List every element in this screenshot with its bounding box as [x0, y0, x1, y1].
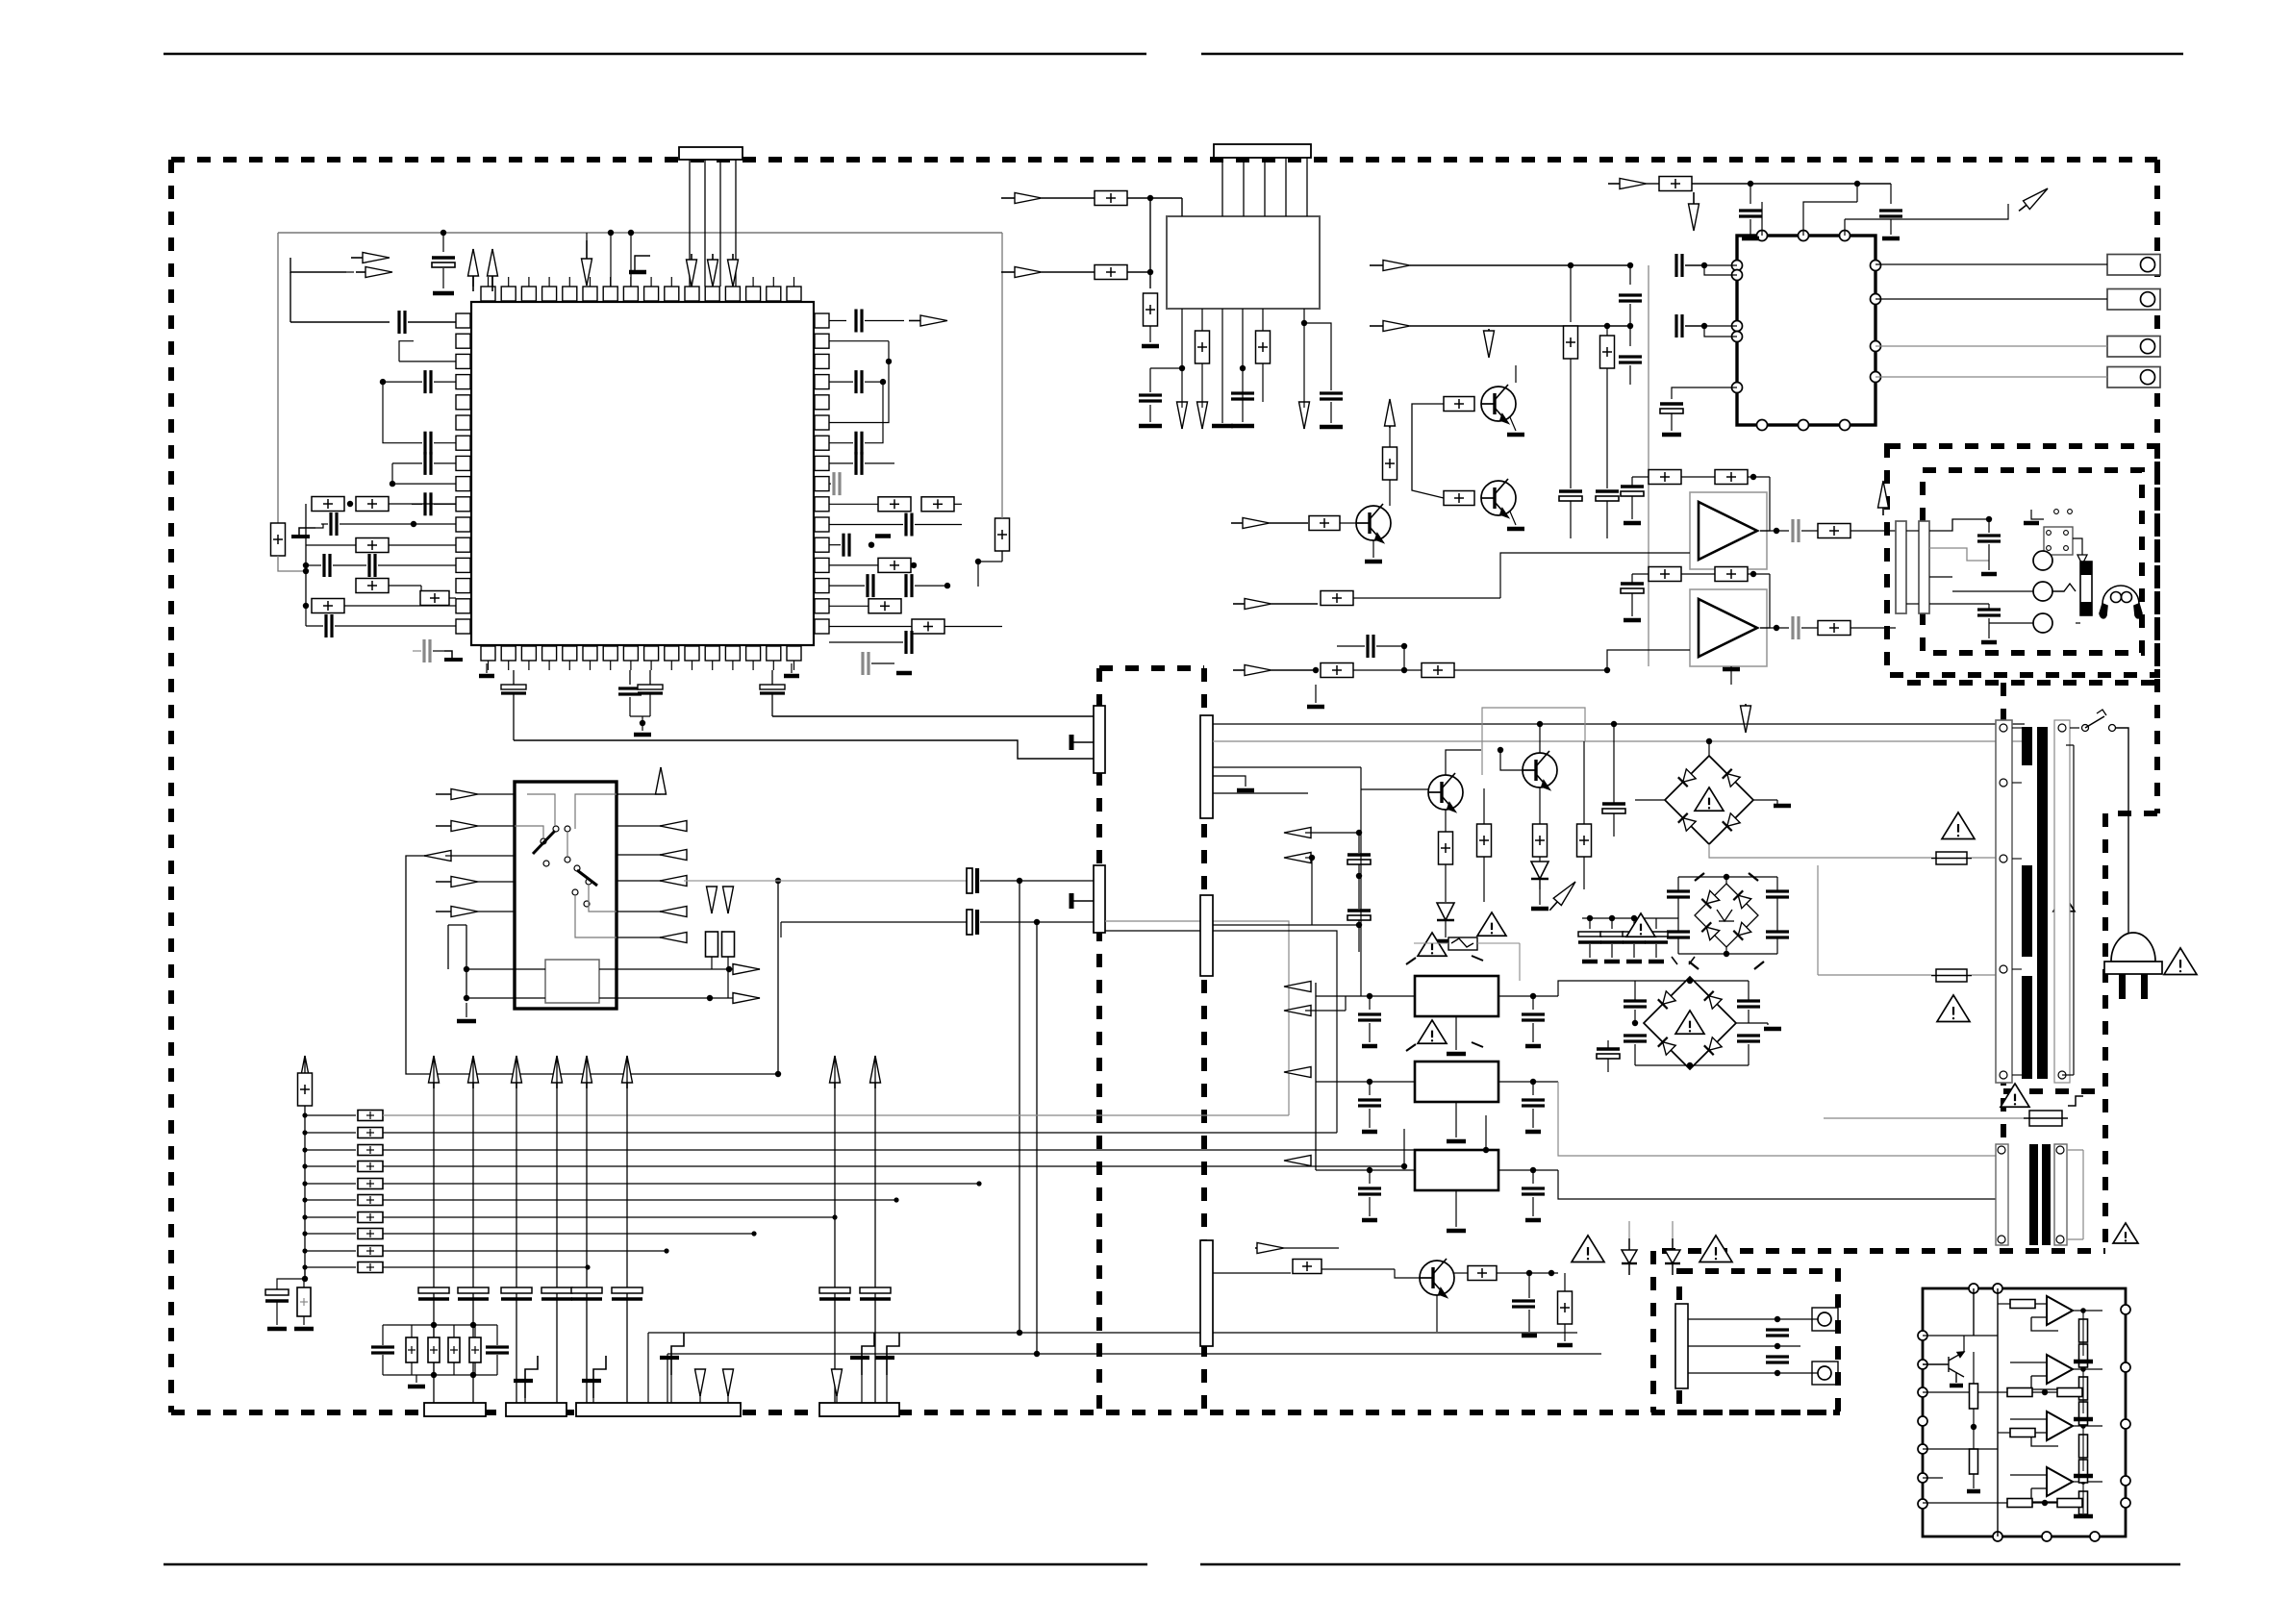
ladder row5 wire: [383, 1183, 979, 1185]
diode D3: [1622, 1238, 1637, 1275]
J2 to U2 wire 5: [1306, 158, 1308, 216]
U10 bottom pin x2077: [1993, 1532, 2002, 1541]
wire to down arrow: [586, 233, 588, 240]
wire W107: [1681, 476, 1715, 478]
wire to left pin 3: [399, 361, 456, 362]
aux connector dashed box: [1679, 1271, 1838, 1412]
IC U1 left pin 16: [456, 619, 470, 634]
U10 column resistor y1458: [2079, 1402, 2088, 1425]
capacitor C30: [1139, 395, 1162, 401]
capacitor C32: [1320, 393, 1343, 399]
U3 bottom pin at 1832: [1757, 420, 1768, 431]
bridge rectifier B1: [1665, 756, 1753, 844]
U10 res c: [1970, 1384, 1978, 1409]
wire W76: [1685, 264, 1704, 266]
wire W11: [321, 523, 328, 525]
wire W210: [1776, 937, 1778, 954]
junction J30: [1774, 528, 1779, 534]
main dashed border right: [2154, 160, 2160, 813]
stage 1 in+ wire: [2010, 1303, 2047, 1305]
U1 bottom feed 2: [629, 670, 631, 685]
gnd under amps: [1723, 667, 1740, 672]
IC U1 left pin 6: [456, 415, 470, 430]
wire W243: [1369, 1023, 1371, 1042]
J3 contact: [2141, 258, 2155, 272]
down arrow top: [582, 240, 592, 286]
junction row916: [1017, 878, 1022, 884]
wire W233: [1817, 865, 1819, 975]
wire W68: [1750, 219, 1751, 235]
T1 core left segments: [2022, 727, 2032, 1079]
gnd B1: [1774, 804, 1791, 809]
wire W177: [670, 1375, 672, 1403]
wire W23: [433, 650, 444, 652]
reg 1 in wire: [1316, 1081, 1415, 1083]
rail C 1714: [1648, 265, 1649, 666]
junction rail B: [1149, 198, 1151, 288]
ladder junction 7: [302, 1214, 307, 1219]
wire W100: [1390, 420, 1444, 422]
dash mark c: [1689, 962, 1699, 969]
wire W122: [1850, 627, 1896, 629]
wire W209: [1776, 897, 1778, 932]
U10 bottom pin x2128: [2042, 1532, 2052, 1541]
stage 4 out wire: [2073, 1481, 2102, 1483]
wire W6: [392, 462, 422, 464]
wire W47: [629, 697, 631, 716]
capacitor C53: [1347, 911, 1371, 920]
wire W54: [1127, 197, 1182, 199]
switch contact: [584, 901, 590, 907]
cap link wire: [383, 382, 422, 443]
U1 top pin stub 13: [732, 277, 734, 287]
drop E 1364: [1311, 858, 1313, 925]
main dashed border bottom: [171, 1410, 1840, 1415]
op-amp stage 2: [2047, 1355, 2073, 1384]
op-amp stage 3: [2047, 1412, 2073, 1440]
warning U7: [1418, 933, 1447, 956]
IC U1 top pin 5: [563, 287, 577, 301]
T2 cores: [2029, 1144, 2051, 1245]
top rule right: [1201, 53, 2183, 55]
B1 left wire: [1635, 799, 1665, 801]
wire W157: [303, 1316, 305, 1325]
gnd reg in 2: [1362, 1218, 1377, 1223]
cluster capacitor 1: [486, 1347, 509, 1353]
capacitor Creg_out2: [1522, 1188, 1545, 1194]
gnd flag J9a: [582, 1356, 606, 1398]
wire W172: [474, 1325, 476, 1337]
T1 terminal: [2000, 724, 2007, 732]
up arrow A1: [468, 249, 479, 291]
capacitor C60: [1624, 1001, 1647, 1007]
junction J82: [1775, 1343, 1780, 1349]
U2 bottom pin wire 1: [1181, 309, 1183, 402]
gnd below U1: [634, 733, 651, 737]
junction J14: [944, 583, 950, 588]
wire W114: [1631, 593, 1633, 616]
wire W295: [1776, 1346, 1778, 1357]
resistor R8: [878, 497, 911, 512]
CN7 wire: [1213, 1272, 1291, 1274]
down arrow onto Q1: [1484, 329, 1495, 358]
jack detect arrow: [2077, 555, 2087, 564]
J2 to U2 wire 3: [1264, 158, 1266, 216]
U3 right pin at 360: [1871, 341, 1881, 352]
long wire D row959: [781, 921, 967, 923]
junction J21: [1854, 181, 1860, 187]
wire W158: [382, 1325, 384, 1345]
U1 bottom feed 1: [513, 670, 515, 685]
U10 internal rail: [1997, 1288, 1999, 1537]
wire W70: [1750, 201, 1762, 203]
transistor Q3: [1356, 504, 1391, 542]
gnd flag J9b: [660, 1333, 684, 1375]
op-amp stage 4: [2047, 1467, 2073, 1496]
U10 column gnd y1577: [2074, 1514, 2093, 1519]
vertical wire to up arrow 1: [472, 249, 474, 287]
resistor Rl8 plus: [366, 1230, 374, 1237]
wire C2 to pin: [408, 321, 456, 323]
wire W22: [335, 625, 456, 627]
mains feed wire 2: [1213, 740, 2025, 742]
wire W199: [1539, 879, 1541, 905]
capacitor C63: [1737, 1036, 1760, 1041]
bus capacitor Cr1: [819, 1287, 850, 1299]
regulator U8: [1415, 1062, 1498, 1102]
switch contact: [574, 865, 580, 871]
wire W49: [642, 716, 643, 731]
IC U1 main processor body: [471, 302, 814, 645]
audio output dashed box: [1887, 446, 2157, 675]
resistor R48: [1558, 1291, 1573, 1324]
T1 top stub: [2066, 744, 2074, 746]
junction J32: [1604, 667, 1610, 673]
wire W26: [865, 320, 904, 322]
junction J79: [1548, 1270, 1554, 1276]
wire W215: [1633, 944, 1635, 958]
junction J2: [608, 230, 614, 236]
IC U1 left pin 3: [456, 354, 470, 368]
down arrow under amps: [1741, 704, 1751, 733]
wire W123: [1730, 666, 1732, 685]
resistor Rl7: [358, 1212, 383, 1223]
junction J25: [1604, 323, 1610, 329]
wire W145: [478, 793, 515, 795]
U10 top pin x2077: [1993, 1284, 2002, 1293]
capacitor C27: [618, 688, 642, 694]
wire W135: [1315, 670, 1317, 685]
gnd step c11: [444, 651, 463, 660]
resistor R7: [312, 599, 344, 613]
U3 top pin at 1875: [1799, 231, 1809, 241]
gnd Q2 emitter: [1507, 527, 1524, 532]
into U4 inv: [1500, 553, 1690, 598]
resistor R39: [722, 932, 735, 957]
wire U3 to J3: [1876, 263, 2107, 265]
cluster resistor 3 plus: [471, 1346, 479, 1354]
ladder rail: [304, 1106, 306, 1279]
J4 contact: [2141, 292, 2155, 307]
capacitor C16: [856, 432, 862, 455]
channel dashed right: [1201, 668, 1207, 1412]
Q4 base wire in: [1361, 788, 1428, 790]
wire W224: [1689, 1065, 1691, 1069]
wire W149: [478, 911, 515, 912]
bus up arrow r1: [830, 1056, 841, 1088]
junction J46: [894, 1197, 898, 1202]
capacitor C55: [1602, 804, 1625, 813]
bus capacitor Cr2: [860, 1287, 891, 1299]
reg3 out wire: [1558, 1170, 1603, 1199]
capacitor C4: [425, 432, 431, 455]
T1 terminal: [2000, 855, 2007, 862]
junction J19: [1301, 320, 1307, 326]
dash arc U7: [1406, 956, 1483, 964]
capacitor C21: [868, 574, 873, 597]
capacitor C20: [843, 534, 849, 557]
wire W306: [1973, 1409, 1975, 1427]
U1 bottom pin stub 1: [488, 661, 490, 670]
U6 right wire 2: [617, 854, 660, 856]
connector bar CN2: [1919, 521, 1929, 613]
HP wire 2: [1929, 548, 1989, 561]
U10 right pin y1481: [2121, 1419, 2130, 1429]
ground top mid: [629, 270, 646, 275]
wire W94: [1516, 365, 1550, 383]
arrow D out-left: [424, 851, 451, 862]
stage 4 fb wire: [2031, 1488, 2058, 1502]
IC U1 left pin 7: [456, 436, 470, 450]
capacitor C42: [1621, 487, 1644, 496]
U10 gnd d: [1967, 1489, 1980, 1494]
junction J27: [1627, 323, 1633, 329]
op-amp stage 1: [2047, 1296, 2073, 1325]
bar link2: [1906, 603, 1919, 605]
wire W259: [1528, 1273, 1530, 1298]
jack contact 2: [2033, 582, 2052, 601]
bus up arrow 1: [429, 1056, 440, 1088]
cluster capacitor 0: [371, 1347, 394, 1353]
resistor Rl5: [358, 1179, 383, 1189]
U1 bottom feed 4: [771, 670, 773, 685]
U3 top pin at 1918: [1840, 231, 1850, 241]
resistor R4: [356, 579, 389, 593]
T1 terminal: [2058, 724, 2066, 732]
vertical wire to up arrow 2: [491, 249, 493, 287]
gnd CN5: [1237, 788, 1254, 793]
wire W85: [1570, 265, 1572, 322]
junction J18: [1240, 365, 1246, 371]
down arrow J9a: [695, 1369, 706, 1396]
wire W198: [1445, 920, 1447, 937]
U1 top pin stub 10: [670, 277, 672, 287]
wire W43: [829, 626, 912, 628]
junction J49: [664, 1248, 668, 1253]
resistor R24: [1600, 336, 1615, 368]
long wire to T2 b: [1603, 1198, 2003, 1200]
IC U1 top pin 3: [521, 287, 536, 301]
wire W156: [276, 1301, 278, 1325]
bus wire to connector bar y745: [772, 715, 1094, 717]
row4 stub up: [1403, 1129, 1405, 1166]
wire W294: [1776, 1336, 1778, 1346]
down arrow B1: [1177, 402, 1188, 429]
junction J71: [1687, 1062, 1693, 1068]
wire W283: [2111, 745, 2113, 904]
J2 to U2 wire 4: [1285, 158, 1287, 216]
long low wire 1: [648, 1332, 1577, 1334]
wire W84: [1629, 365, 1631, 385]
U10 rail2: [1973, 1288, 1975, 1336]
wire W37: [915, 524, 962, 526]
U3 left pin at 403: [1732, 383, 1743, 393]
wire W59: [1149, 405, 1151, 422]
U10 column gnd y1416: [2074, 1360, 2093, 1364]
IC U1 right pin 7: [815, 436, 829, 450]
U10 column resistor y1518: [2079, 1460, 2088, 1483]
loopback wire: [829, 341, 889, 423]
wire W211: [1725, 877, 1727, 884]
gnd reg 1: [1447, 1139, 1466, 1144]
wire R2 to pin: [389, 503, 456, 505]
reg 2 in wire: [1316, 1169, 1415, 1171]
resistor R33: [1818, 524, 1850, 538]
cluster resistor 2 plus: [450, 1346, 458, 1354]
row2 rise to CN4: [1105, 931, 1337, 1133]
wire to plug live: [2116, 728, 2128, 904]
wire W274: [1600, 1199, 1602, 1354]
junction J84: [2042, 1500, 2048, 1506]
B2 bottom rail: [1678, 953, 1777, 955]
jack switch pin: [2047, 531, 2052, 536]
dash mark b: [1749, 873, 1758, 881]
down arrow 2 into U1: [708, 254, 718, 287]
gnd step link: [315, 524, 323, 528]
wire W57: [1149, 326, 1151, 342]
wire W191: [1445, 864, 1447, 902]
junction J38: [1034, 1351, 1040, 1357]
wire W240: [1305, 1071, 1316, 1073]
junction J28: [1750, 474, 1756, 480]
join caps: [630, 715, 650, 717]
IC U1 right pin 10: [815, 497, 829, 512]
resistor R13: [912, 619, 944, 634]
transistor Q2: [1481, 479, 1516, 517]
wire U3 to J5: [1876, 345, 2107, 347]
wire W16: [378, 564, 456, 566]
junction J31: [1774, 625, 1779, 631]
wire W20: [305, 606, 307, 626]
wire W27: [829, 340, 889, 342]
capacitor C49 series: [967, 868, 977, 893]
wire W247: [1532, 1082, 1534, 1095]
warning D4: [1699, 1236, 1732, 1262]
gnd HP2: [1981, 640, 1997, 645]
arrow D sub2: [733, 993, 760, 1004]
stub: [399, 341, 414, 362]
capacitor C35: [1676, 254, 1682, 277]
capacitor Creg_in1: [1358, 1100, 1381, 1106]
junction J74: [1367, 1079, 1372, 1085]
wire W173: [474, 1362, 476, 1375]
junction J52: [431, 1322, 437, 1328]
bus line 5: [586, 1056, 588, 1403]
wire W256: [1454, 1272, 1468, 1274]
resistor Rl1 plus: [366, 1112, 374, 1119]
junction J5: [390, 481, 395, 487]
RCA connector J5: [2107, 337, 2160, 358]
wire W139: [1988, 604, 1990, 610]
CN5 wire 3: [1213, 766, 1361, 768]
capacitor Cr13: [1645, 932, 1668, 942]
ladder wire 10: [305, 1266, 356, 1268]
junction J40: [464, 995, 469, 1001]
wire W178: [699, 1396, 701, 1403]
wire W19: [449, 597, 456, 599]
gnd amp1: [1624, 521, 1641, 526]
switch feed: [2070, 727, 2079, 729]
ladder junction 5: [302, 1181, 307, 1186]
jack contact 1: [2033, 551, 2052, 570]
rail bend wire: [978, 561, 1002, 562]
cluster resistor 2: [448, 1337, 460, 1362]
junction J8: [303, 562, 309, 568]
ladder junction 2: [302, 1130, 307, 1135]
gnd Q3: [1365, 560, 1382, 564]
reg out wire 0: [1498, 995, 1558, 997]
capacitor C6: [425, 492, 431, 515]
capacitor C51: [265, 1289, 289, 1301]
wire W119: [1850, 530, 1896, 532]
wire W260: [1528, 1310, 1530, 1332]
wire W1: [346, 271, 354, 273]
capacitor C7: [331, 512, 337, 536]
junction J47: [832, 1214, 837, 1219]
wire W293: [1776, 1319, 1778, 1330]
wire W187: [1463, 745, 1523, 779]
junction J11: [880, 379, 886, 385]
IC U1 right pin 14: [815, 579, 829, 593]
U10 left pin y1564: [1918, 1499, 1927, 1509]
rail bend drop: [977, 562, 979, 587]
junction J10: [303, 568, 309, 574]
wire W62: [1181, 402, 1183, 408]
wire W89: [1570, 501, 1572, 538]
stage 1 fb wire: [2031, 1317, 2058, 1331]
J1 pin wire 1: [689, 160, 691, 287]
wire loop left: [290, 321, 390, 323]
resistor R1: [312, 497, 344, 512]
gnd B3: [1764, 1027, 1781, 1032]
wire W264: [1558, 1272, 1635, 1274]
ladder junction 1: [302, 1112, 307, 1117]
resistor Rl3 plus: [366, 1146, 374, 1154]
gnd flag J10b: [875, 1333, 899, 1375]
wire W31: [829, 462, 853, 464]
IC U1 top pin 12: [705, 287, 719, 301]
wire W234: [1786, 781, 1931, 858]
resistor Rl10 plus: [366, 1263, 374, 1271]
capacitor Creg_out1: [1522, 1100, 1545, 1106]
arrow D in4: [436, 907, 478, 917]
join dot: [640, 720, 645, 726]
wire W106: [1648, 476, 1649, 478]
up-right arrow C: [2016, 185, 2052, 215]
U3 left pin at 339: [1732, 321, 1743, 332]
wire W18: [389, 585, 421, 587]
wire W263: [1564, 1272, 1566, 1274]
